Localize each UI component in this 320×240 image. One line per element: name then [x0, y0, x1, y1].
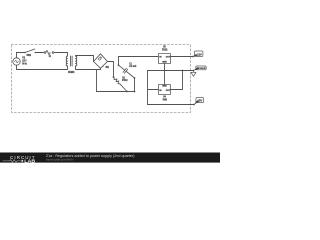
- regulator U4 7905 box: [159, 85, 171, 95]
- svg-text:GND: GND: [162, 85, 167, 87]
- wire secondary top to bridge left corner: [76, 56, 94, 62]
- transformer XFMR1 secondary winding: [76, 56, 77, 66]
- wire U3 gnd pin down to U4: [164, 64, 166, 85]
- svg-text:976 kΩ: 976 kΩ: [122, 79, 128, 82]
- bridge rectifier BR1 diamond: [94, 54, 108, 68]
- svg-text:GND: GND: [162, 62, 167, 64]
- svg-text:7905: 7905: [163, 98, 168, 101]
- U4 pin labels: [159, 85, 171, 91]
- wire bottom out rail: [148, 104, 195, 106]
- net flag +12V: [194, 51, 203, 57]
- svg-text:LAB: LAB: [24, 158, 35, 163]
- ground symbol: [191, 71, 196, 77]
- wire U4 in: [148, 89, 159, 91]
- svg-text:+12V: +12V: [196, 53, 203, 57]
- BR1 internal diode: [98, 57, 102, 61]
- switch SW1: [25, 49, 35, 53]
- wire U4 out to ground rail: [171, 71, 183, 90]
- wire V1 top stem: [16, 53, 18, 58]
- svg-text:3.3 mF: 3.3 mF: [129, 65, 137, 68]
- wire V1 bottom stem: [16, 65, 18, 69]
- net flag Ground: [196, 66, 206, 70]
- net flag -5V: [196, 98, 204, 103]
- svg-text:BR1: BR1: [106, 66, 110, 69]
- wire C1 bottom down: [134, 78, 136, 92]
- wire fuse to transformer: [54, 53, 68, 57]
- wire switch to fuse: [36, 52, 44, 54]
- U3 pin labels: [159, 57, 171, 64]
- wire bridge right corner: [108, 62, 114, 78]
- transformer core: [71, 56, 73, 66]
- wire AC node down: [96, 70, 98, 92]
- svg-text:XFMR1: XFMR1: [68, 71, 75, 74]
- CircuitLab logo wire-resistor graphic: [3, 160, 21, 163]
- fuse F1: [44, 52, 46, 54]
- bottom caption bar: [0, 153, 220, 163]
- transformer XFMR1 primary winding: [66, 56, 67, 66]
- svg-text:OUT: OUT: [166, 90, 171, 92]
- svg-text:http://circuitlab.com/c6hx7m: http://circuitlab.com/c6hx7m: [46, 158, 74, 162]
- capacitor C1: [119, 65, 135, 78]
- dashed boundary box: [12, 45, 191, 113]
- wire C1 top to plus rail: [119, 57, 159, 66]
- wire left ground drop: [147, 71, 149, 105]
- svg-text:OUT: OUT: [166, 57, 171, 59]
- resistor R1: [114, 77, 128, 91]
- wire ground rail: [148, 70, 194, 72]
- voltage source V1: [13, 58, 20, 65]
- svg-text:7812: 7812: [162, 49, 168, 52]
- svg-text:-5V: -5V: [197, 99, 202, 103]
- svg-text:Ground: Ground: [197, 66, 206, 70]
- wire primary bottom return: [17, 66, 68, 70]
- wire secondary bottom: [76, 66, 101, 70]
- wire top left: [17, 52, 26, 54]
- regulator U3 7812 box: [159, 54, 171, 64]
- svg-text:SW1: SW1: [27, 54, 32, 57]
- svg-text:60 Hz: 60 Hz: [22, 62, 27, 65]
- junction dots: [113, 56, 195, 106]
- wire U3 out rail: [171, 56, 194, 58]
- wire bottom negative rail: [97, 91, 135, 93]
